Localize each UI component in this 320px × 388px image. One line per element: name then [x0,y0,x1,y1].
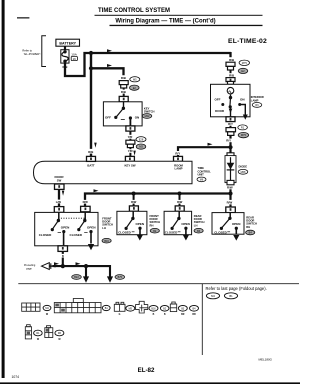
terminal unit ROOM LAMP [174,156,183,161]
arrow down beside wire [62,191,65,196]
INTERIOR-LAMP-COLUMN [211,52,264,153]
svg-text:W: W [58,339,61,341]
svg-text:SW: SW [57,179,62,183]
svg-text:B75: B75 [118,276,123,279]
sheet id EL-TIME-02 [228,38,267,45]
note refer to last page [206,286,267,291]
terminal key switch top [119,96,128,101]
header rule 1 [95,15,263,16]
svg-text:CLOSED: CLOSED [39,233,52,237]
wire trunk vertical [90,53,92,157]
connector id c [126,306,135,312]
fuse F26 10A [61,50,78,63]
svg-text:R/W: R/W [177,200,183,204]
battery B1 [56,39,80,46]
svg-text:LAMP: LAMP [175,167,183,171]
label REAR DOOR SWITCH LH [194,214,205,233]
wire preceding line [53,266,111,277]
wire to diode [229,135,231,153]
svg-text:CLOSED: CLOSED [70,233,83,237]
arrow down beside wire [133,151,136,156]
pin label BATT [87,163,95,167]
connector id M5 [130,77,140,82]
svg-text:EL-TIME-02: EL-TIME-02 [228,38,267,45]
pin label DOOR SW [55,175,65,182]
TIME-CONTROL-UNIT [34,156,212,189]
node J5 [61,264,65,268]
svg-text:CLOSED: CLOSED [118,230,131,234]
label REAR DOOR SWITCH RH [246,216,257,235]
wire drop to box2 [133,194,135,207]
wire elbow down [229,52,231,57]
header rule 2 [110,25,263,26]
label INTERIOR LAMP [251,95,264,107]
DOOR-SW-WIRE [54,189,64,212]
wire label R/B [229,58,234,62]
wire label R/B [229,74,234,78]
wire to connector [230,126,232,128]
REAR-DOOR-SWITCH-LH [164,211,204,240]
connector id B75 [115,275,125,280]
title TIME CONTROL SYSTEM [98,8,170,14]
wire label B [62,255,64,258]
ground arrow case [183,235,189,241]
svg-text:E2: E2 [241,69,245,73]
wire label L/W [56,200,62,204]
label FRONT DOOR SWITCH RH [150,214,161,233]
mechanical link dashed [58,217,84,219]
left pole [39,212,70,245]
svg-text:R/Y: R/Y [175,151,180,155]
svg-text:TIME CONTROL SYSTEM: TIME CONTROL SYSTEM [98,8,170,14]
ROOM-LAMP-RISER [174,143,231,162]
svg-text:Refer to last page (Foldout pa: Refer to last page (Foldout page). [206,286,267,291]
svg-text:Y/R: Y/R [128,149,134,153]
svg-text:BATT: BATT [87,163,95,167]
svg-text:R/W: R/W [83,200,89,204]
left page edge bar [2,0,5,378]
switch box [35,212,98,245]
connector face H [170,302,176,312]
svg-text:R/B: R/B [121,76,126,80]
switch [165,211,190,234]
terminal unit BATT [87,156,96,161]
connector face B 8x2 with tab [54,299,101,313]
terminal key switch bottom [126,126,135,131]
wire label R/W [227,201,233,205]
connector face C [114,302,125,311]
svg-text:R/B: R/B [229,58,234,62]
connector id i [178,306,187,317]
wire drop to box3 [179,194,181,207]
wire label R/B [63,65,68,69]
terminal lamp bottom [226,117,235,122]
svg-text:OPEN: OPEN [61,226,70,230]
svg-text:M75: M75 [241,133,247,137]
node bus drop 2 [178,192,182,196]
svg-text:R/Y: R/Y [226,139,231,143]
svg-text:E28: E28 [139,137,144,141]
right pole [70,212,96,243]
FRONT-DOOR-SWITCH-LH [35,212,113,251]
svg-text:OFF: OFF [215,98,221,102]
node bus drop 1 [132,192,136,196]
svg-text:MEL180G: MEL180G [258,358,272,362]
svg-text:B22: B22 [74,276,79,279]
connector face M 2x2 [45,326,53,338]
CONNECTOR-FACE-SECTION [18,284,299,355]
wire to lamp [230,70,232,78]
connector id b [102,305,110,310]
switch box [212,213,244,235]
unit body [34,161,193,184]
connector id M75 [239,60,249,65]
svg-text:DIODE: DIODE [239,164,248,168]
svg-text:M22: M22 [145,115,150,118]
svg-text:26: 26 [73,57,77,61]
svg-text:CLOSED: CLOSED [165,230,178,234]
connector id B22 [72,275,82,280]
GROUND-BUS [81,189,236,212]
diode D1 [225,156,236,183]
arrow on branch 1 [107,49,112,52]
svg-text:M68: M68 [241,171,246,174]
arrow on line 1 [54,262,59,265]
connector face K 1x3 [25,325,31,339]
svg-text:OFF: OFF [105,116,111,120]
svg-text:M6: M6 [200,179,204,182]
terminal big box bottom [58,246,68,252]
svg-text:M3: M3 [139,145,143,149]
bottom rule [0,382,300,384]
svg-text:ON: ON [240,98,245,102]
connector id a [43,305,51,316]
svg-text:“EL-POWER”.: “EL-POWER”. [24,52,42,56]
switch box [117,211,147,234]
interior lamp assembly [211,84,251,119]
PRECEDING-PAGE-SECTION [24,251,125,282]
node J3 room lamp join [228,145,232,149]
label G [119,314,121,316]
wire label R/Y [226,139,231,143]
connector inline R1/M75 [226,128,236,136]
label DIODE [238,164,248,174]
ground arrow case [233,235,239,241]
svg-text:KEY SW: KEY SW [125,163,136,167]
key switch S1 [103,102,142,126]
node J6 [84,264,88,268]
DIODE-COLUMN [225,153,248,207]
connector id E28 [136,137,146,142]
svg-text:R1: R1 [241,126,245,130]
connector inline E28/M3 [126,140,135,147]
REAR-DOOR-SWITCH-RH [212,213,257,241]
svg-text:page: page [26,267,32,270]
terminal box3 top [175,206,184,211]
wire label R/Y [228,122,233,126]
svg-text:OPEN: OPEN [232,222,241,226]
terminal box4 top [226,207,236,213]
wire diode to box4 [229,189,231,207]
terminal unit DOOR SW [55,184,65,189]
svg-text:G: G [119,314,121,316]
wire label R/B [121,90,126,94]
svg-text:B: B [164,314,166,316]
page connector arrow [42,263,57,270]
FRONT-DOOR-SWITCH-RH [117,211,160,240]
page number EL-82 [138,367,155,374]
wire label R/B [121,76,126,80]
note Refer to EL-POWER [22,49,41,57]
svg-text:B: B [153,314,155,316]
subtitle Wiring Diagram [115,19,215,25]
arrow on bus [94,189,99,192]
arrow on line 2 [76,262,81,265]
connector face A 4x2 [22,303,40,311]
terminal big box left [54,207,64,213]
svg-text:SWITCH: SWITCH [144,110,155,114]
arrow on trunk down [94,143,97,148]
svg-text:Y/R: Y/R [128,135,134,139]
svg-text:CLOSED: CLOSED [214,231,227,235]
ground arrow case [137,235,143,241]
ground arrow 1 [83,276,89,282]
connector face E cross [136,301,148,313]
label TIME CONTROL UNIT [197,166,211,182]
svg-text:LH: LH [194,223,198,227]
svg-text:OPEN: OPEN [87,226,96,230]
arrow on branch 2 [107,64,112,67]
connector inline M75/E2 [226,62,235,70]
wire to connector [129,131,131,140]
svg-text:R/Y: R/Y [228,122,233,126]
wire label R/W [131,200,137,204]
svg-text:W: W [37,339,40,341]
wire big box bottom down [62,251,64,266]
svg-text:R/W: R/W [227,201,233,205]
svg-text:B16: B16 [104,240,109,243]
switch [214,213,240,235]
svg-text:W: W [46,314,49,316]
svg-text:BR: BR [192,314,196,316]
svg-text:RH: RH [246,225,250,229]
svg-text:BR: BR [181,314,185,316]
bracket [42,36,46,67]
switch box [164,211,192,234]
wire ground drop 1 [85,266,87,277]
svg-text:RH: RH [150,223,154,227]
label Preceding page [24,264,36,270]
terminal box2 top [129,206,138,211]
wire branch to interior lamp [91,52,231,54]
svg-text:Wiring Diagram — TIME — (Cont’: Wiring Diagram — TIME — (Cont’d) [115,19,215,25]
svg-text:LH: LH [102,226,106,230]
code 1074 [12,375,20,379]
TRUNK [88,49,231,157]
connector id d [149,306,158,317]
wire label R/W [177,200,183,204]
svg-text:L/W: L/W [56,200,62,204]
KEY-SWITCH-COLUMN [103,76,154,161]
connector id M3 [136,144,146,149]
svg-text:R/B: R/B [121,90,126,94]
label KEY SWITCH [142,106,154,118]
wire branch to key switch [91,68,124,75]
connector id R1 [238,125,248,130]
terminal unit KEY SW [125,156,134,161]
svg-text:B1: B1 [229,294,233,298]
terminal diode top [227,153,234,157]
svg-text:LAMP: LAMP [251,98,259,102]
connector inline M5/E2 [119,81,128,88]
arrow on riser line [208,143,213,146]
svg-text:BATTERY: BATTERY [59,42,76,46]
wire to key switch [123,88,125,96]
terminal pin marks [58,79,231,250]
connector id e [160,306,169,317]
wire label Y/R [128,135,134,139]
wire to unit KEY SW [129,148,131,157]
connector id E2 [238,68,248,73]
terminal big box right [81,206,91,212]
svg-text:1074: 1074 [12,375,20,379]
svg-text:M4: M4 [211,294,215,298]
wire label R/W [83,200,89,204]
svg-text:OPEN: OPEN [181,222,190,226]
connector id M75 [238,132,248,137]
wire label R/Y [175,151,180,155]
pin label ROOM LAMP [174,163,183,170]
wire room lamp to diode column [178,147,231,156]
wire door sw down [58,189,60,207]
separator vertical [201,284,203,355]
connector id E2 [130,85,140,90]
ground arrow case [88,244,94,250]
svg-text:R/B: R/B [88,150,93,154]
connector id B1 [224,293,237,299]
wire label Y/R [128,149,134,153]
code MEL180G [258,358,272,362]
node J1 [89,51,93,55]
left margin tick [17,17,29,18]
svg-text:EL-82: EL-82 [138,367,155,374]
HEADER [95,8,268,45]
terminal lamp top [226,78,235,85]
wire bus [85,194,231,207]
node J4 on ground bus [228,191,232,195]
connector id M4 [206,293,219,299]
BATTERY-SECTION [22,36,91,76]
svg-text:E2: E2 [133,86,137,90]
svg-text:R/B: R/B [229,74,234,78]
connector id N [55,330,64,341]
svg-text:B16: B16 [151,307,156,310]
wire label R/B above BATT [88,150,93,154]
connector id j [190,306,199,317]
terminal diode bottom [227,180,234,184]
node J2 [89,66,93,70]
svg-text:B: B [62,255,64,258]
wire label R/W [227,186,233,190]
switch [118,211,144,234]
svg-text:UNIT: UNIT [198,173,205,177]
wire battery to fuse [64,46,66,50]
connector id L [34,330,43,341]
svg-text:R/W: R/W [131,200,137,204]
separator rule [18,283,299,285]
pin label KEY SW [125,163,136,167]
svg-text:M5: M5 [133,77,137,81]
svg-text:R/W: R/W [227,186,233,190]
svg-text:DOOR: DOOR [215,109,225,113]
ground arrow 2 [107,276,113,282]
svg-text:ON: ON [135,116,140,120]
label FRONT DOOR SWITCH LH [102,217,113,244]
wire fuse to trunk [65,53,91,76]
svg-text:M75: M75 [242,61,248,65]
svg-text:OPEN: OPEN [136,222,145,226]
